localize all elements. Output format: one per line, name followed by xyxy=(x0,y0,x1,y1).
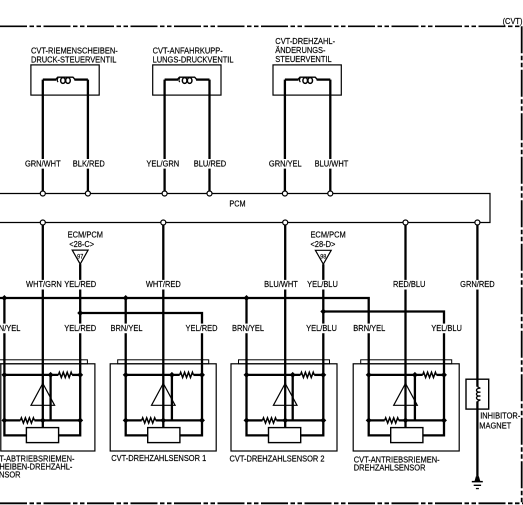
connector triangle 97 ECM/PCM 28-C xyxy=(72,250,88,264)
junction CVT-ANTRIEBSRIEMEN-DREHZAHLSENSOR upper-left xyxy=(366,372,372,378)
PCM bottom pin node x=405.5 xyxy=(403,220,408,225)
junction CVT-ANTRIEBSRIEMEN-DREHZAHLSENSOR lower-right xyxy=(441,417,447,423)
svg-text:INHIBITOR-: INHIBITOR- xyxy=(480,411,520,421)
junction BRN/YEL bus to sensor3 xyxy=(244,295,250,301)
wire label BLU/WHT xyxy=(314,159,350,169)
wire label YEL/RED row2 xyxy=(63,324,97,334)
junction CVT-DREHZAHLSENSOR 2 upper-left xyxy=(244,372,250,378)
wire label YEL/BLU row2 xyxy=(305,324,338,334)
PCM top pin node x=42.8 xyxy=(40,191,45,196)
op-amp in CVT-ANTRIEBSRIEMEN-DREHZAHLSENSOR xyxy=(394,383,418,405)
svg-text:BRN/YEL: BRN/YEL xyxy=(353,323,385,333)
wire op-amp feed to sensing element in CVT-ANTRIEBSRIEMEN-DREHZAHLSENSOR xyxy=(404,383,406,427)
resistor in CVT-ANTRIEBSRIEMEN-DREHZAHLSENSOR xyxy=(385,418,399,423)
junction CVT-DREHZAHLSENSOR 2 upper-right xyxy=(320,372,326,378)
wire op-amp feed to sensing element in CVT-ABTRIEBSRIEMENSCHEIBEN-DREHZAHLSENSOR xyxy=(42,383,44,427)
svg-text:BRN/YEL: BRN/YEL xyxy=(232,323,264,333)
wire from solenoid valve CVT-ANFAHRKUPPLUNGS-DRUCKVENTIL right pin to PCM xyxy=(208,80,210,192)
junction CVT-ANTRIEBSRIEMEN-DREHZAHLSENSOR lower-left xyxy=(366,417,372,423)
junction CVT-ABTRIEBSRIEMENSCHEIBEN-DREHZAHLSENSOR upper-right xyxy=(77,372,83,378)
junction CVT-ABTRIEBSRIEMENSCHEIBEN-DREHZAHLSENSOR lower-right xyxy=(77,417,83,423)
resistor in CVT-DREHZAHLSENSOR 2 xyxy=(263,418,277,423)
wire from solenoid valve CVT-RIEMENSCHEIBEN-DRUCK-STEUERVENTIL right pin to PCM xyxy=(87,80,89,192)
svg-text:WHT/GRN: WHT/GRN xyxy=(26,280,62,290)
wire label GRN/RED row1 xyxy=(459,280,496,290)
svg-text:BLU/RED: BLU/RED xyxy=(194,159,227,169)
wire label BLK/RED xyxy=(72,159,106,169)
sensing element in CVT-DREHZAHLSENSOR 2 xyxy=(269,428,301,443)
wire YEL/BLU branch to sensor4 right pin xyxy=(323,312,444,361)
wire label YEL/RED row1 xyxy=(63,280,97,290)
wire op-amp feed to sensing element in CVT-DREHZAHLSENSOR 1 xyxy=(162,383,164,427)
svg-text:DRUCK-STEUERVENTIL: DRUCK-STEUERVENTIL xyxy=(31,55,117,65)
wire dashed border bottom xyxy=(0,502,523,504)
wire label GRN/WHT xyxy=(24,159,62,169)
junction YEL/RED branch xyxy=(77,310,83,316)
wire YEL/RED branch to sensor2 right pin xyxy=(80,313,202,361)
svg-text:98: 98 xyxy=(320,254,327,260)
speed sensor CVT-DREHZAHLSENSOR 1 xyxy=(110,359,216,451)
op-amp in CVT-DREHZAHLSENSOR 2 xyxy=(273,383,297,405)
junction CVT-DREHZAHLSENSOR 1 upper-right xyxy=(199,372,205,378)
solenoid valve CVT-RIEMENSCHEIBEN-DRUCK-STEUERVENTIL xyxy=(31,65,99,95)
junction CVT-ABTRIEBSRIEMENSCHEIBEN-DREHZAHLSENSOR upper-mid xyxy=(48,372,54,378)
wire BLU/WHT PCM to sensor3 opamp xyxy=(284,225,286,384)
junction CVT-DREHZAHLSENSOR 1 lower-mid xyxy=(160,417,166,423)
svg-text:YEL/RED: YEL/RED xyxy=(64,280,96,290)
junction BRN/YEL bus to sensor1 xyxy=(1,295,7,301)
PCM top pin node x=87.9 xyxy=(85,191,90,196)
junction CVT-ABTRIEBSRIEMENSCHEIBEN-DREHZAHLSENSOR lower-left xyxy=(1,417,7,423)
wire inner vertical in CVT-ANTRIEBSRIEMEN-DREHZAHLSENSOR xyxy=(414,375,416,421)
wire from solenoid valve CVT-DREHZAHL-AENDERUNGS-STEUERVENTIL right pin to PCM xyxy=(329,80,331,192)
wire from solenoid valve CVT-ANFAHRKUPPLUNGS-DRUCKVENTIL left pin to PCM xyxy=(163,80,165,192)
wire label BLU/WHT row1 xyxy=(263,280,299,290)
svg-text:DREHZAHLSENSOR: DREHZAHLSENSOR xyxy=(354,463,426,473)
PCM bottom pin node x=285.2 xyxy=(283,220,288,225)
sensing element in CVT-ABTRIEBSRIEMENSCHEIBEN-DREHZAHLSENSOR xyxy=(26,428,58,443)
ground G101 xyxy=(472,476,483,489)
resistor in CVT-DREHZAHLSENSOR 1 xyxy=(142,418,156,423)
junction CVT-ANTRIEBSRIEMEN-DREHZAHLSENSOR upper-mid xyxy=(412,372,418,378)
svg-text:YEL/BLU: YEL/BLU xyxy=(431,323,462,333)
wire label YEL/BLU row1 xyxy=(306,280,339,290)
resistor pull-up in CVT-ABTRIEBSRIEMENSCHEIBEN-DREHZAHLSENSOR xyxy=(58,372,72,377)
wire inner vertical in CVT-DREHZAHLSENSOR 1 xyxy=(171,375,173,421)
wire inner vertical in CVT-DREHZAHLSENSOR 2 xyxy=(292,375,294,421)
svg-text:YEL/RED: YEL/RED xyxy=(64,323,96,333)
wire label RED/BLU row1 xyxy=(392,280,426,290)
svg-text:BRN/YEL: BRN/YEL xyxy=(111,323,143,333)
svg-text:RED/BLU: RED/BLU xyxy=(393,280,426,290)
speed sensor CVT-DREHZAHLSENSOR 2 xyxy=(231,359,337,451)
wire label GRN/YEL xyxy=(268,159,303,169)
svg-text:BLK/RED: BLK/RED xyxy=(73,159,105,169)
PCM top pin node x=284.9 xyxy=(282,191,287,196)
junction CVT-DREHZAHLSENSOR 1 upper-left xyxy=(123,372,129,378)
junction CVT-ABTRIEBSRIEMENSCHEIBEN-DREHZAHLSENSOR upper-left xyxy=(1,372,7,378)
junction CVT-ANTRIEBSRIEMEN-DREHZAHLSENSOR lower-mid xyxy=(403,417,409,423)
op-amp in CVT-ABTRIEBSRIEMENSCHEIBEN-DREHZAHLSENSOR xyxy=(31,383,55,405)
svg-text:GRN/WHT: GRN/WHT xyxy=(25,159,61,169)
svg-text:97: 97 xyxy=(77,254,83,260)
wire BRN/YEL bus xyxy=(0,298,369,361)
wire from solenoid valve CVT-DREHZAHL-AENDERUNGS-STEUERVENTIL left pin to PCM xyxy=(284,80,286,192)
wire YEL/RED triangle97 to sensor1 right pin xyxy=(79,264,81,360)
wire label BLU/RED xyxy=(193,159,227,169)
svg-text:<28-C>: <28-C> xyxy=(69,240,94,250)
inhibitor magnet coil box xyxy=(466,379,489,409)
resistor pull-up in CVT-ANTRIEBSRIEMEN-DREHZAHLSENSOR xyxy=(423,372,437,377)
junction CVT-DREHZAHLSENSOR 2 upper-mid xyxy=(290,372,296,378)
coil of solenoid valve CVT-ANFAHRKUPPLUNGS-DRUCKVENTIL xyxy=(177,77,197,79)
wire label BRN/YEL row2 xyxy=(109,324,143,334)
PCM connector box xyxy=(0,194,490,223)
svg-text:BRN/YEL: BRN/YEL xyxy=(0,323,21,333)
svg-text:MAGNET: MAGNET xyxy=(479,421,511,431)
wire RED/BLU PCM to sensor4 opamp xyxy=(404,225,406,384)
junction CVT-DREHZAHLSENSOR 1 upper-mid xyxy=(169,372,175,378)
speed sensor CVT-ABTRIEBSRIEMENSCHEIBEN-DREHZAHLSENSOR xyxy=(0,359,95,451)
wire label WHT/GRN row1 xyxy=(25,280,63,290)
junction CVT-DREHZAHLSENSOR 2 lower-right xyxy=(320,417,326,423)
wire label BRN/YEL row2 xyxy=(0,324,21,334)
svg-text:BLU/WHT: BLU/WHT xyxy=(264,280,298,290)
PCM top pin node x=164.6 xyxy=(162,191,167,196)
PCM bottom pin node x=477.4 xyxy=(475,220,480,225)
resistor in CVT-ABTRIEBSRIEMENSCHEIBEN-DREHZAHLSENSOR xyxy=(20,418,34,423)
svg-text:YEL/GRN: YEL/GRN xyxy=(146,159,179,169)
svg-text:GRN/RED: GRN/RED xyxy=(460,280,495,290)
wire label BRN/YEL row2 xyxy=(231,324,265,334)
svg-text:SENSOR: SENSOR xyxy=(0,470,21,480)
junction CVT-DREHZAHLSENSOR 1 lower-right xyxy=(199,417,205,423)
junction CVT-DREHZAHLSENSOR 2 lower-left xyxy=(244,417,250,423)
junction CVT-DREHZAHLSENSOR 2 lower-mid xyxy=(282,417,288,423)
wire label WHT/RED row1 xyxy=(145,280,182,290)
junction CVT-DREHZAHLSENSOR 1 lower-left xyxy=(123,417,129,423)
wire WHT/RED PCM to sensor2 opamp xyxy=(162,225,164,384)
svg-text:BLU/WHT: BLU/WHT xyxy=(315,159,349,169)
wire BRN/YEL to sensor1 left pin xyxy=(3,298,5,361)
solenoid valve CVT-DREHZAHL-AENDERUNGS-STEUERVENTIL xyxy=(273,65,341,95)
svg-text:ECM/PCM: ECM/PCM xyxy=(310,230,346,240)
svg-text:PCM: PCM xyxy=(229,199,245,209)
junction CVT-ABTRIEBSRIEMENSCHEIBEN-DREHZAHLSENSOR lower-mid xyxy=(40,417,46,423)
wire BRN/YEL to sensor2 left pin xyxy=(125,298,127,361)
wire inhibitor magnet to ground xyxy=(476,401,478,476)
junction BRN/YEL bus to sensor2 xyxy=(123,295,129,301)
svg-text:GRN/YEL: GRN/YEL xyxy=(269,159,302,169)
PCM bottom pin node x=42.8 xyxy=(40,220,45,225)
svg-text:YEL/RED: YEL/RED xyxy=(186,323,218,333)
wire from solenoid valve CVT-RIEMENSCHEIBEN-DRUCK-STEUERVENTIL left pin to PCM xyxy=(42,80,44,192)
wire BRN/YEL to sensor3 left pin xyxy=(245,298,247,361)
PCM top pin node x=330.3 xyxy=(328,191,333,196)
svg-text:YEL/BLU: YEL/BLU xyxy=(307,280,338,290)
speed sensor CVT-ANTRIEBSRIEMEN-DREHZAHLSENSOR xyxy=(353,359,459,451)
wire label YEL/BLU row2 xyxy=(430,324,463,334)
sensing element in CVT-DREHZAHLSENSOR 1 xyxy=(148,428,180,443)
svg-text:<28-D>: <28-D> xyxy=(310,240,335,250)
svg-text:STEUERVENTIL: STEUERVENTIL xyxy=(275,55,332,65)
connector triangle 98 ECM/PCM 28-D xyxy=(315,250,331,264)
PCM top pin node x=209.5 xyxy=(207,191,212,196)
wire label YEL/GRN xyxy=(145,159,180,169)
solenoid valve CVT-ANFAHRKUPPLUNGS-DRUCKVENTIL xyxy=(153,65,221,95)
svg-text:LUNGS-DRUCKVENTIL: LUNGS-DRUCKVENTIL xyxy=(153,55,234,65)
coil of solenoid valve CVT-RIEMENSCHEIBEN-DRUCK-STEUERVENTIL xyxy=(56,77,76,79)
resistor pull-up in CVT-DREHZAHLSENSOR 2 xyxy=(301,372,315,377)
wire dashed border top xyxy=(0,25,522,27)
wire label YEL/RED row2 xyxy=(184,324,218,334)
wire dashed border right xyxy=(521,26,523,503)
PCM bottom pin node x=163.3 xyxy=(161,220,166,225)
svg-text:CVT-DREHZAHLSENSOR 2: CVT-DREHZAHLSENSOR 2 xyxy=(229,454,325,464)
wire inner vertical in CVT-ABTRIEBSRIEMENSCHEIBEN-DREHZAHLSENSOR xyxy=(49,375,51,421)
resistor pull-up in CVT-DREHZAHLSENSOR 1 xyxy=(180,372,194,377)
wire WHT/GRN PCM to sensor1 opamp xyxy=(42,225,44,384)
junction YEL/BLU branch xyxy=(320,309,326,315)
sensing element in CVT-ANTRIEBSRIEMEN-DREHZAHLSENSOR xyxy=(391,428,423,443)
junction CVT-ANTRIEBSRIEMEN-DREHZAHLSENSOR upper-right xyxy=(441,372,447,378)
svg-text:CVT-DREHZAHLSENSOR 1: CVT-DREHZAHLSENSOR 1 xyxy=(111,453,207,463)
svg-text:ECM/PCM: ECM/PCM xyxy=(68,230,104,240)
op-amp in CVT-DREHZAHLSENSOR 1 xyxy=(152,383,176,405)
wire YEL/BLU triangle98 to sensor3 right pin xyxy=(322,264,324,360)
svg-text:(CVT): (CVT) xyxy=(503,16,523,26)
wire op-amp feed to sensing element in CVT-DREHZAHLSENSOR 2 xyxy=(284,383,286,427)
coil of solenoid valve CVT-DREHZAHL-AENDERUNGS-STEUERVENTIL xyxy=(298,77,318,79)
wire label BRN/YEL row2 xyxy=(352,324,386,334)
svg-text:WHT/RED: WHT/RED xyxy=(146,280,181,290)
wire GRN/RED PCM to inhibitor magnet xyxy=(476,225,478,387)
svg-text:YEL/BLU: YEL/BLU xyxy=(306,323,337,333)
